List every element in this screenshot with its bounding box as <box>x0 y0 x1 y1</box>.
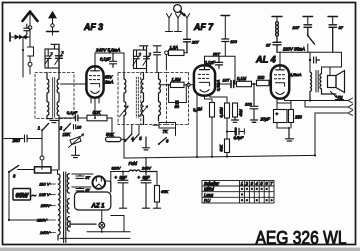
svg-text:Feld: Feld <box>129 161 138 166</box>
tap 240V <box>39 230 55 235</box>
variable capacitor C2a <box>133 50 141 69</box>
svg-text:AEG 326 WL: AEG 326 WL <box>256 227 347 248</box>
svg-text:150: 150 <box>295 115 303 120</box>
wire Y1 end bar <box>166 22 173 32</box>
wire rect to node <box>111 216 124 232</box>
svg-text:AZ 1: AZ 1 <box>91 204 106 210</box>
svg-text:7M: 7M <box>338 95 343 99</box>
svg-text:1: 1 <box>241 181 243 186</box>
resistor 50K lower <box>225 139 230 153</box>
capacitor 57 <box>76 187 91 193</box>
bus B minus <box>87 231 130 233</box>
svg-text:Mittel: Mittel <box>204 187 214 192</box>
svg-text:0,3mA: 0,3mA <box>215 79 220 91</box>
wire IF2 to bus <box>123 125 125 159</box>
capacitor HT side <box>314 57 320 63</box>
wire L1 to tube grid <box>61 83 87 85</box>
tube V2 AF7 <box>194 65 215 95</box>
svg-text:6,5µF: 6,5µF <box>234 136 244 140</box>
terminal Y1 <box>166 14 171 23</box>
capacitor 6,5uF <box>227 128 244 134</box>
ground chassis mid <box>143 137 150 150</box>
arrow marker on antenna wire <box>15 35 19 40</box>
node <box>101 231 103 233</box>
svg-text:+: + <box>115 175 118 180</box>
wire fuse to transformer <box>51 170 58 174</box>
switch table <box>202 181 274 204</box>
terminal Y2 <box>175 14 180 23</box>
node Feld2 <box>145 171 147 173</box>
antenna input terminal <box>9 33 11 41</box>
svg-text:55T: 55T <box>213 51 220 56</box>
terminal circle grid <box>187 83 190 86</box>
speaker terminal 1 <box>322 98 353 103</box>
svg-text:AF 7: AF 7 <box>193 22 214 32</box>
tube V4 AZ1 rectifier <box>93 176 106 189</box>
node <box>94 117 96 119</box>
coil L2b <box>142 73 144 125</box>
tube V1 AF3 <box>86 66 103 97</box>
shield dashed extension <box>167 73 189 125</box>
resistor 0,15M <box>225 103 230 118</box>
svg-text:37: 37 <box>266 43 271 48</box>
capacitor 0,1uF anode <box>110 53 117 67</box>
svg-text:0,15M: 0,15M <box>220 106 224 117</box>
wire V3 cathode <box>276 98 278 110</box>
node <box>168 84 170 86</box>
coupling coil box <box>28 37 34 62</box>
wire circle to tube <box>190 84 194 86</box>
wire 7K leads <box>153 125 176 135</box>
pickup symbol <box>174 5 185 16</box>
tap 125V <box>39 192 55 197</box>
dial lamp <box>99 210 105 232</box>
field coil arrow <box>331 92 344 100</box>
svg-text:1,5A: 1,5A <box>170 45 179 50</box>
table dots Lang <box>241 193 243 195</box>
antenna changeover bowtie <box>19 35 26 39</box>
ground under cathode <box>286 128 294 141</box>
jack symbol <box>40 156 44 170</box>
fuse resistor mains <box>35 167 52 173</box>
tap 110V <box>39 182 55 187</box>
resistor 50K pill <box>106 137 126 141</box>
svg-text:0,1µF: 0,1µF <box>67 110 78 115</box>
variable capacitor C1a <box>45 49 53 68</box>
wire HT rail <box>277 52 342 67</box>
capacitor padder <box>153 46 161 73</box>
wire mains switch <box>18 169 35 171</box>
stub above gang1 <box>51 44 58 49</box>
wire 50K to bus <box>226 153 228 157</box>
svg-text:+: + <box>138 175 141 180</box>
switch contact 6 <box>158 138 167 145</box>
antenna A2 <box>47 12 59 36</box>
wire V2 screen to R 0,15M <box>210 94 227 104</box>
HT stub 1 with choke <box>272 17 282 43</box>
wire resistor leads <box>184 52 187 54</box>
wire AZ1 output elbow <box>105 181 111 192</box>
wire HT sec bottom <box>72 186 91 188</box>
svg-text:65K: 65K <box>161 189 168 194</box>
svg-text:50K: 50K <box>220 144 224 151</box>
wire 49M bottom ground <box>232 117 239 122</box>
node <box>211 156 213 158</box>
node antenna junction <box>26 36 28 38</box>
svg-text:4,5mA: 4,5mA <box>290 72 302 77</box>
svg-text:7K: 7K <box>163 129 168 134</box>
tube V2 internals <box>198 65 209 92</box>
node <box>226 130 228 132</box>
wire B+ to Feld <box>111 171 129 173</box>
resistor 300 <box>257 80 270 85</box>
core IF1 <box>53 78 55 118</box>
switch contact 7 <box>307 34 315 52</box>
core IF2 dashed <box>136 77 138 118</box>
svg-text:+: + <box>276 112 279 117</box>
wire to 0,1M <box>234 83 237 85</box>
coil L2c <box>159 73 161 122</box>
switch contact 4 <box>124 125 132 143</box>
svg-text:49M: 49M <box>239 108 243 116</box>
wire gramo vertical <box>41 132 43 157</box>
resistor 0,1M <box>237 81 252 86</box>
wire legs join <box>277 123 291 129</box>
capacitor 207 <box>184 39 191 53</box>
resistor 65K <box>154 172 169 209</box>
filament loop box <box>75 192 111 210</box>
wire Y3 down <box>186 22 188 39</box>
table header text <box>204 181 273 203</box>
wire right bus down <box>314 113 316 155</box>
chassis bus <box>124 155 315 158</box>
svg-text:16T: 16T <box>223 78 230 83</box>
switch contact 1 <box>41 124 49 132</box>
speaker terminal 2 <box>305 101 353 110</box>
svg-text:15K: 15K <box>63 132 72 137</box>
resistor 7K <box>159 123 176 129</box>
tube V3 internals <box>274 65 284 94</box>
wire V1 anode lead <box>94 98 96 118</box>
svg-text:1,5M: 1,5M <box>172 77 182 82</box>
capacitor 37 right <box>329 25 337 52</box>
capacitor 50 parallel loop <box>169 85 187 105</box>
node <box>22 49 24 51</box>
speaker terminal 3 <box>315 111 353 116</box>
wire junction cap <box>226 118 228 139</box>
svg-text:P.U: P.U <box>204 198 210 203</box>
ground under 100 <box>251 120 258 122</box>
IF2 divider dashed <box>140 73 142 125</box>
wire 300 to V3 <box>269 82 271 84</box>
ground under pot <box>72 147 80 158</box>
coil L1 primary <box>47 73 49 119</box>
svg-text:220V: 220V <box>36 218 47 223</box>
speaker <box>328 71 345 93</box>
wire from resistor to coil <box>165 55 167 70</box>
tuning gang 1 box <box>45 49 59 68</box>
svg-text:207: 207 <box>292 25 300 30</box>
svg-text:65W: 65W <box>16 193 30 200</box>
resistor 1,5A <box>169 50 185 56</box>
coil L2a <box>124 73 126 125</box>
svg-text:Schalter: Schalter <box>204 181 220 186</box>
wire Y2 end bar <box>175 22 182 32</box>
power transformer secondary HT <box>67 174 69 194</box>
output transformer core <box>316 71 318 93</box>
lamp fuse symbol <box>28 62 32 74</box>
wire HT sec top <box>72 173 93 175</box>
HT stub 3 <box>328 17 338 25</box>
svg-text:0,1µF: 0,1µF <box>100 56 111 61</box>
tube V1 internals <box>89 66 99 93</box>
svg-text:8µF: 8µF <box>120 175 128 180</box>
wire 220V tap <box>9 219 48 221</box>
svg-text:20µF: 20µF <box>260 117 271 122</box>
wire secondary top <box>322 67 342 73</box>
field choke Feld <box>129 170 157 171</box>
IF transformer 2 dashed box <box>118 73 167 125</box>
tap 150V <box>41 203 56 208</box>
capacitor 8uF first <box>115 172 129 209</box>
capacitor 16T coupling <box>231 81 234 88</box>
wire 0,5M down <box>211 117 213 157</box>
svg-text:37: 37 <box>339 25 344 30</box>
trimmer 10 <box>74 125 82 130</box>
capacitor antenna series <box>24 24 30 35</box>
wire V2 cathode down <box>196 94 198 157</box>
switch contact 2 <box>63 124 71 132</box>
variable capacitor C1b <box>55 44 64 72</box>
capacitor 0,1uF coupling <box>76 115 78 121</box>
switch contact 5 <box>132 125 139 143</box>
svg-text:0,1µF: 0,1µF <box>205 60 216 65</box>
HT stub 2 <box>303 17 313 25</box>
wire V3 top to HT <box>279 52 281 65</box>
svg-text:1: 1 <box>38 126 40 131</box>
power transformer secondary rect fil <box>67 199 69 214</box>
terminal circle <box>165 51 169 55</box>
node junction <box>253 83 255 85</box>
wire HT down <box>309 52 311 72</box>
wire V1 cathode stub <box>91 96 99 103</box>
output transformer primary <box>310 72 312 101</box>
chassis bus bottom <box>60 237 130 239</box>
potentiometer 15K <box>69 134 84 148</box>
capacitor 100 <box>250 84 258 119</box>
tuning arrow L2b <box>139 106 148 117</box>
tuning arrow L2a <box>120 106 129 117</box>
resistor 1,5M <box>171 82 185 87</box>
power transformer core <box>64 172 66 243</box>
capacitor 37 left <box>273 42 281 52</box>
power transformer secondary heater <box>67 217 69 232</box>
svg-text:220V 35mA: 220V 35mA <box>282 46 305 51</box>
svg-text:~: ~ <box>32 192 37 201</box>
power rating box 65W <box>13 189 31 201</box>
variable capacitor C2b <box>143 46 151 73</box>
wire anode row <box>285 100 323 102</box>
wire left vertical <box>22 37 24 77</box>
wire cap to 50K <box>78 117 87 119</box>
coil L1 secondary <box>57 73 59 171</box>
wire V2 anode out <box>215 83 230 85</box>
HT stub with capacitor 100 <box>221 16 238 57</box>
wire V1 grid top <box>95 53 124 73</box>
switch contact 3 mains <box>8 166 19 173</box>
capacitor 8uF second <box>138 158 152 209</box>
svg-text:0,1M: 0,1M <box>237 76 247 81</box>
table dots PU <box>241 199 243 201</box>
wire 1,5M leads <box>161 84 187 86</box>
node Feld <box>122 171 124 173</box>
svg-text:50K: 50K <box>106 132 115 137</box>
antenna A1 <box>23 12 38 38</box>
node <box>226 155 228 157</box>
svg-text:50: 50 <box>175 104 180 109</box>
node <box>309 99 311 101</box>
tuning gang 2 box <box>134 50 147 69</box>
resistor 150 <box>289 110 294 123</box>
svg-text:AL 4: AL 4 <box>255 55 276 65</box>
wire V2 to R 0,5M <box>205 96 213 103</box>
resistor 0,5M <box>210 103 215 118</box>
node <box>288 127 290 129</box>
resistor 49M <box>233 103 238 117</box>
svg-text:300: 300 <box>258 75 266 80</box>
table dots Mittel <box>241 188 273 202</box>
svg-text:150V: 150V <box>41 203 51 208</box>
svg-text:100: 100 <box>245 102 252 107</box>
resistor 50K <box>87 115 107 121</box>
heater centre bar <box>70 221 96 227</box>
wire V2 grid top <box>205 56 236 84</box>
IF transformer 1 dashed box <box>35 73 74 119</box>
wire to coupling cap <box>59 117 75 119</box>
svg-text:125 V: 125 V <box>39 192 50 197</box>
capacitor 20uF box <box>274 110 288 123</box>
node <box>196 156 198 158</box>
capacitor 207 right <box>304 25 312 35</box>
svg-text:100: 100 <box>230 39 237 44</box>
capacitor 250 <box>4 135 42 143</box>
svg-text:8µF: 8µF <box>143 175 151 180</box>
node mains <box>8 219 10 221</box>
svg-text:320V: 320V <box>112 167 121 171</box>
svg-text:AF 3: AF 3 <box>83 22 103 32</box>
ground IF1 centre <box>47 119 58 123</box>
svg-text:207: 207 <box>191 40 199 45</box>
wire resistor 50K leads <box>107 118 112 137</box>
terminal Y3 <box>184 14 189 23</box>
wire speaker top stub <box>329 67 331 76</box>
svg-text:2mA: 2mA <box>104 79 114 84</box>
wire V3 to R150 <box>277 97 291 110</box>
svg-text:110 V: 110 V <box>39 182 49 187</box>
svg-text:240V: 240V <box>39 230 50 235</box>
capacitor 5T <box>76 174 91 180</box>
stub above gang2 <box>140 46 149 50</box>
capacitor 0,1uF V2 <box>216 56 223 68</box>
tube V3 AL4 <box>271 65 289 98</box>
wire antenna input <box>10 36 30 38</box>
svg-text:50K: 50K <box>93 110 102 115</box>
tap 220V <box>36 218 55 223</box>
svg-text:5T: 5T <box>86 176 91 180</box>
power transformer primary <box>58 174 60 240</box>
svg-text:240V 5,8mA: 240V 5,8mA <box>95 47 120 52</box>
svg-text:Lang: Lang <box>204 192 214 197</box>
wire B+ vertical <box>110 172 112 193</box>
wire mains left down <box>8 172 10 220</box>
node HT <box>309 59 311 61</box>
output transformer secondary <box>320 73 336 94</box>
wire node <box>252 83 257 85</box>
